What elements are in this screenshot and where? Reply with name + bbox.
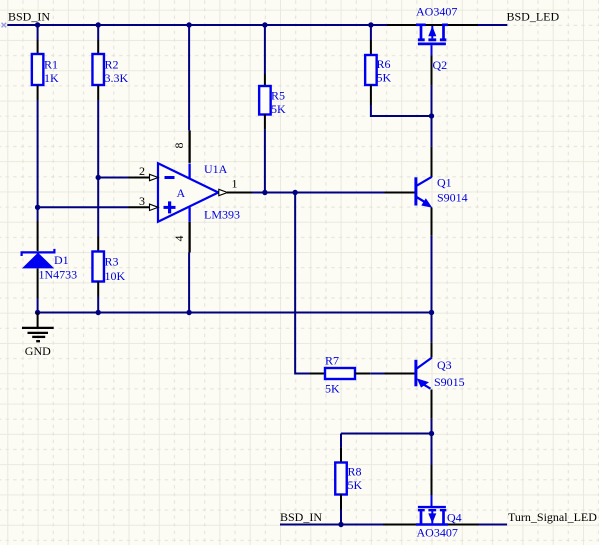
- svg-text:A: A: [177, 186, 186, 200]
- wire R8 to bottom rail: [340, 510, 342, 525]
- wire pin3 net: [38, 206, 129, 208]
- junction gnd rail Q1 emitter: [429, 310, 434, 315]
- svg-text:AO3407: AO3407: [416, 5, 457, 19]
- svg-text:1N4733: 1N4733: [39, 268, 78, 282]
- svg-text:U1A: U1A: [204, 162, 228, 176]
- svg-text:5K: 5K: [325, 382, 340, 396]
- junction top rail pin8: [186, 22, 191, 27]
- wire rail to R2: [97, 25, 99, 40]
- svg-text:BSD_IN: BSD_IN: [8, 10, 50, 24]
- junction top rail R1: [35, 22, 40, 27]
- svg-text:Q2: Q2: [433, 58, 448, 72]
- svg-text:8: 8: [172, 143, 186, 149]
- wire R2 to R3: [97, 100, 99, 237]
- wire pin4 to gnd rail: [188, 253, 190, 313]
- resistor R6: [365, 40, 391, 105]
- svg-text:5K: 5K: [271, 102, 286, 116]
- wire rail to R1: [37, 25, 39, 40]
- resistor R3: [92, 237, 125, 297]
- svg-text:R8: R8: [348, 465, 362, 479]
- svg-text:3: 3: [139, 194, 145, 208]
- wire gnd rail: [38, 312, 432, 314]
- svg-text:3.3K: 3.3K: [105, 71, 129, 85]
- op-amp U1A: [129, 130, 253, 252]
- svg-text:AO3407: AO3407: [417, 526, 458, 540]
- junction Q4 gate node: [429, 431, 434, 436]
- wire output net: [252, 192, 385, 194]
- svg-text:D1: D1: [54, 253, 69, 267]
- junction gnd rail R3: [96, 310, 101, 315]
- svg-text:S9014: S9014: [437, 191, 468, 205]
- svg-text:R6: R6: [377, 57, 391, 71]
- wire rail to R5: [264, 25, 266, 74]
- resistor R5: [259, 74, 286, 129]
- svg-text:5K: 5K: [348, 478, 363, 492]
- svg-text:1K: 1K: [44, 71, 59, 85]
- svg-text:1: 1: [232, 177, 238, 191]
- wire R7 to Q3 base: [370, 373, 384, 375]
- junction top rail R2: [96, 22, 101, 27]
- transistor Q2: [387, 5, 478, 86]
- resistor R7: [310, 354, 370, 396]
- wire Q2 gate to node: [431, 86, 433, 116]
- resistor R2: [92, 40, 128, 100]
- wire Q1 emitter to gnd rail: [431, 236, 433, 313]
- wire node A to D1: [37, 207, 39, 221]
- junction gnd rail pin4: [186, 310, 191, 315]
- wire R8 top: [340, 434, 342, 448]
- svg-text:Q1: Q1: [437, 176, 452, 190]
- wire bottom rail left: [280, 524, 383, 526]
- wire R1 to node A: [37, 100, 39, 207]
- junction top rail R6: [368, 22, 373, 27]
- wire D1 to gnd rail: [37, 298, 39, 313]
- svg-text:4: 4: [172, 236, 186, 242]
- wire top rail left: [7, 24, 388, 26]
- svg-text:Turn_Signal_LED: Turn_Signal_LED: [508, 510, 597, 524]
- wire gnd rail to Q3 collector: [431, 313, 433, 343]
- junction bottom rail R8: [338, 522, 343, 527]
- transistor Q1: [385, 147, 468, 236]
- node A junction: [35, 205, 40, 210]
- wire R5 to output net: [264, 129, 266, 192]
- junction Q2 gate node: [429, 113, 434, 118]
- transistor Q3: [385, 342, 465, 418]
- junction output R5: [262, 190, 267, 195]
- junction top rail R5: [262, 22, 267, 27]
- svg-text:S9015: S9015: [434, 375, 465, 389]
- wire node to Q1 collector: [431, 116, 433, 147]
- resistor R1: [32, 40, 59, 100]
- svg-text:2: 2: [139, 164, 145, 178]
- svg-text:R2: R2: [105, 58, 119, 72]
- wire rail to pin8: [188, 25, 190, 130]
- svg-text:GND: GND: [25, 344, 51, 358]
- resistor R8: [335, 447, 362, 509]
- wire R6 to Q2 gate node: [371, 105, 432, 116]
- svg-text:10K: 10K: [105, 269, 126, 283]
- wire bottom rail right: [479, 524, 508, 526]
- svg-text:R7: R7: [325, 354, 339, 368]
- svg-text:R3: R3: [105, 255, 119, 269]
- wire top rail right: [478, 24, 507, 26]
- wire R3 to gnd rail: [97, 297, 99, 313]
- transistor Q4: [383, 465, 479, 540]
- junction R2 bottom pin2 net: [96, 175, 101, 180]
- svg-text:R1: R1: [44, 58, 58, 72]
- svg-text:Q3: Q3: [437, 358, 452, 372]
- svg-text:BSD_LED: BSD_LED: [507, 10, 560, 24]
- svg-text:Q4: Q4: [447, 511, 462, 525]
- wire rail to R6: [370, 25, 372, 40]
- no-ERC marker: [2, 23, 7, 28]
- wire pin2 net: [98, 177, 128, 179]
- wire Q3 emitter to node: [431, 419, 433, 434]
- junction gnd rail D1: [35, 310, 40, 315]
- diode D1: [22, 221, 78, 298]
- ground: [22, 313, 54, 358]
- wire node to R8: [341, 433, 432, 435]
- wire node down to Q4 gate: [431, 434, 433, 466]
- svg-text:LM393: LM393: [204, 208, 240, 222]
- svg-text:BSD_IN: BSD_IN: [280, 510, 322, 524]
- junction output R7 branch: [292, 190, 297, 195]
- wire output branch to R7: [295, 193, 310, 374]
- svg-text:R5: R5: [271, 89, 285, 103]
- svg-text:5K: 5K: [377, 71, 392, 85]
